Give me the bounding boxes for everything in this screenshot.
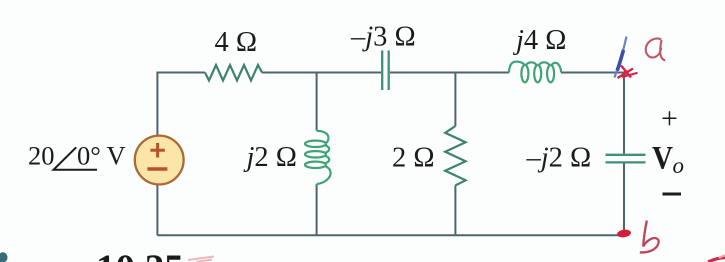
cropped caption fragment left: [0, 252, 7, 262]
capacitor -j3 ohm: [382, 51, 389, 91]
wire top segment between 4-ohm resistor and -j3 capacitor: [262, 72, 381, 74]
wire 2-ohm branch upper: [454, 73, 456, 127]
wire middle branch upper (top node to j2 inductor): [316, 73, 318, 131]
label source value 20 angle 0 V: [28, 141, 126, 171]
svg-text:4 Ω: 4 Ω: [215, 27, 258, 58]
label -j2 ohm: [526, 142, 592, 173]
wire middle branch lower (j2 inductor to bottom wire): [316, 185, 318, 235]
wire top segment between -j3 capacitor and j4 inductor: [390, 72, 509, 74]
label j4 ohm: [512, 25, 566, 56]
label a handwritten: [646, 38, 665, 60]
voltage source VS 20 angle 0 V: [135, 136, 184, 185]
wire 2-ohm branch lower: [454, 185, 456, 235]
svg-text:j4 Ω: j4 Ω: [512, 25, 566, 56]
svg-text:V: V: [652, 140, 673, 176]
inductor j2 ohm: [305, 131, 331, 185]
wire top-left segment (source top corner to 4-ohm resistor): [157, 73, 205, 136]
wire bottom segment: [157, 234, 624, 236]
label Vo: [652, 140, 684, 178]
svg-text:–j3 Ω: –j3 Ω: [350, 21, 416, 52]
label b handwritten: [640, 221, 659, 253]
cropped red pen stroke bottom right: [708, 256, 725, 262]
svg-text:j2 Ω: j2 Ω: [243, 142, 297, 173]
terminal b red dot: [617, 229, 632, 238]
inductor j4 ohm: [509, 62, 561, 83]
label j2 ohm: [243, 142, 297, 173]
svg-text:2 Ω: 2 Ω: [392, 142, 435, 173]
resistor 4 ohm: [205, 65, 262, 81]
svg-text:0°: 0°: [77, 141, 101, 171]
resistor 2 ohm: [445, 126, 465, 185]
label Vo minus sign: [663, 193, 682, 196]
svg-text:–j2 Ω: –j2 Ω: [526, 142, 592, 173]
svg-text:+: +: [661, 102, 678, 135]
cropped caption text 10.25: [96, 247, 184, 262]
terminal a red scribble: [618, 66, 638, 79]
svg-text:o: o: [673, 153, 685, 178]
wire left branch below source: [156, 185, 158, 235]
terminal a pen marks (blue slash): [615, 37, 627, 78]
wire right branch upper (node a corner to -j2 capacitor): [623, 73, 625, 154]
svg-text:20: 20: [28, 141, 55, 171]
wire top segment j4 inductor to corner node a: [561, 72, 624, 74]
label 2 ohm: [392, 142, 435, 173]
capacitor -j2 ohm: [606, 155, 646, 163]
label Vo plus sign: [661, 102, 678, 135]
label 4 ohm: [215, 27, 258, 58]
cropped caption faint red marks: [188, 257, 214, 262]
label -j3 ohm: [350, 21, 416, 52]
wire right branch lower (-j2 capacitor to node b): [623, 164, 625, 236]
svg-text:10.25: 10.25: [96, 247, 184, 262]
svg-text:V: V: [107, 141, 126, 171]
